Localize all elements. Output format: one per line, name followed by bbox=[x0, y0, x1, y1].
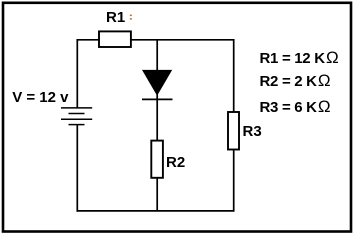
battery V1 plate short upper bbox=[69, 113, 85, 115]
battery V1 plate short bottom bbox=[69, 124, 85, 126]
svg-text:R1: R1 bbox=[106, 9, 125, 26]
diode D1 anode triangle bbox=[142, 70, 172, 96]
svg-text:R1 = 12 KΩ: R1 = 12 KΩ bbox=[260, 48, 339, 67]
svg-text:R2: R2 bbox=[166, 154, 185, 171]
wire middle branch upper (top node down through diode to R2) bbox=[156, 39, 158, 141]
resistor R1 bbox=[99, 31, 131, 47]
wire top-left (node A to R1 left terminal) bbox=[77, 39, 100, 41]
wire left branch lower (battery - plate down to bottom node) bbox=[76, 125, 78, 212]
wire right branch upper (top node down to R3) bbox=[233, 39, 235, 113]
wire right branch lower (R3 to bottom node) bbox=[233, 149, 235, 211]
battery V1 plate long lower bbox=[61, 118, 92, 120]
wire left branch upper (top node down to battery + plate) bbox=[76, 39, 78, 108]
svg-text:R3: R3 bbox=[243, 123, 262, 140]
wire middle branch lower (R2 to bottom node) bbox=[156, 178, 158, 212]
diode D1 cathode bar bbox=[142, 98, 173, 100]
colon mark after R1 label bbox=[130, 15, 132, 20]
resistor R2 bbox=[151, 141, 163, 178]
svg-text:R2 = 2 KΩ: R2 = 2 KΩ bbox=[260, 71, 331, 90]
wire bottom (left branch to right branch) bbox=[77, 210, 235, 212]
wire top-right (R1 right terminal across to right branch) bbox=[131, 39, 235, 41]
svg-text:R3 = 6 KΩ: R3 = 6 KΩ bbox=[260, 97, 331, 116]
battery V1 plate long top bbox=[61, 107, 92, 109]
svg-text:V = 12 v: V = 12 v bbox=[12, 89, 69, 106]
resistor R3 bbox=[228, 112, 239, 150]
